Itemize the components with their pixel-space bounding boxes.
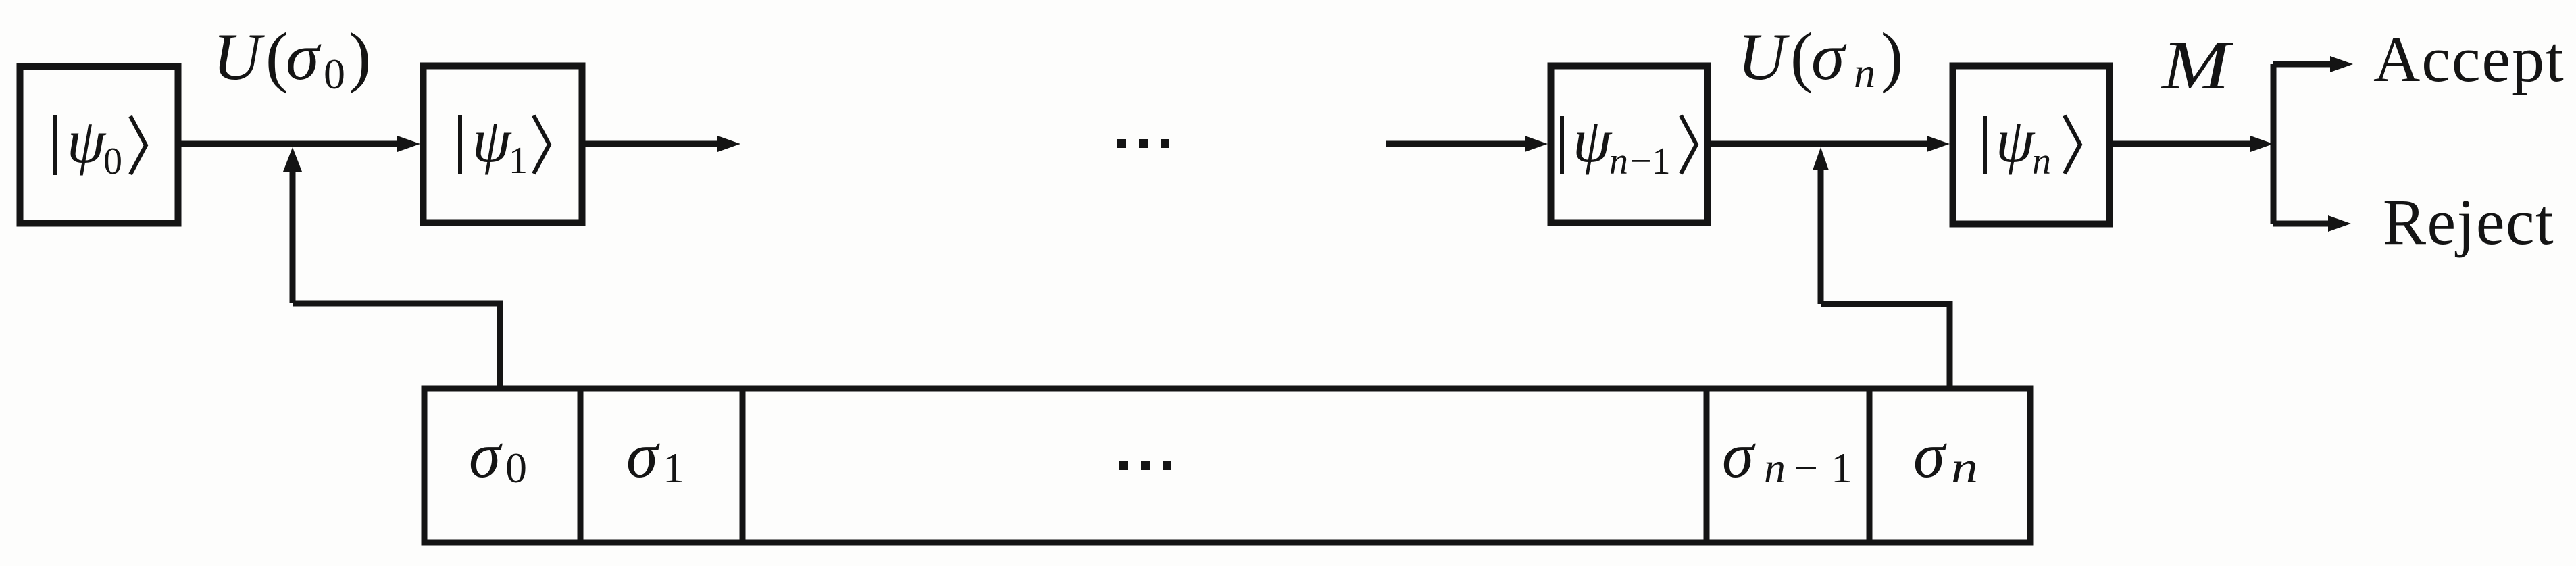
svg-text:(: ( bbox=[1790, 19, 1813, 94]
elbow connector 1 to tape bbox=[293, 303, 500, 386]
elbow connector 2 to tape bbox=[1821, 304, 1950, 386]
svg-text:): ) bbox=[1881, 19, 1903, 94]
svg-text:ψ: ψ bbox=[472, 106, 512, 175]
svg-text:σ: σ bbox=[626, 419, 660, 491]
svg-text:−1: −1 bbox=[1630, 140, 1671, 182]
svg-text:Accept: Accept bbox=[2373, 23, 2565, 95]
svg-text:ψ: ψ bbox=[1996, 106, 2036, 175]
tape feed arrow 2 (up arrow into wire) bbox=[1813, 147, 1829, 304]
svg-text:n: n bbox=[1951, 443, 1978, 492]
tape label sigma0 bbox=[469, 419, 527, 492]
svg-text:ψ: ψ bbox=[1573, 106, 1613, 175]
svg-text:σ: σ bbox=[1722, 419, 1756, 491]
tape (input word) bbox=[424, 388, 2030, 542]
wire out of box2 bbox=[585, 136, 740, 152]
tape label sigma n bbox=[1913, 419, 1978, 492]
svg-text:ψ: ψ bbox=[67, 107, 107, 176]
svg-text:Reject: Reject bbox=[2383, 186, 2554, 258]
svg-text:M: M bbox=[2161, 27, 2233, 104]
label Reject bbox=[2383, 186, 2554, 258]
svg-text:0: 0 bbox=[505, 444, 527, 492]
tape label sigma1 bbox=[626, 419, 684, 492]
svg-text:σ: σ bbox=[286, 19, 322, 94]
svg-text:n: n bbox=[1609, 140, 1628, 182]
label |psi1> bbox=[460, 106, 549, 182]
tape cell divider sigma n-1|sigma n bbox=[1867, 386, 1873, 545]
state box psi n-1 bbox=[1551, 66, 1708, 223]
tape label sigma n-1 bbox=[1722, 419, 1852, 492]
label |psi0> bbox=[55, 107, 146, 182]
ellipsis dots (tape) bbox=[1119, 461, 1171, 470]
label |psi n> bbox=[1985, 106, 2080, 182]
svg-text:0: 0 bbox=[103, 140, 122, 182]
svg-text:1: 1 bbox=[509, 140, 528, 182]
tape feed arrow 1 (up arrow into wire) bbox=[283, 147, 302, 303]
tape cell divider sigma1|dots bbox=[740, 386, 746, 545]
svg-text:): ) bbox=[349, 19, 371, 94]
svg-text:σ: σ bbox=[469, 419, 503, 491]
label U(sigma0) bbox=[213, 19, 371, 98]
label M bbox=[2161, 27, 2233, 104]
svg-text:n: n bbox=[2032, 140, 2051, 182]
tape cell divider dots|sigma n-1 bbox=[1704, 386, 1710, 545]
svg-text:1: 1 bbox=[1831, 444, 1852, 492]
state box psi0 bbox=[20, 67, 178, 224]
svg-text:σ: σ bbox=[1811, 19, 1847, 94]
svg-text:n: n bbox=[1764, 444, 1786, 492]
svg-text:U: U bbox=[213, 20, 265, 94]
branch bracket bbox=[2273, 56, 2353, 232]
measurement wire M bbox=[2113, 136, 2273, 152]
wire box1 to box2 bbox=[178, 136, 420, 152]
svg-text:1: 1 bbox=[663, 444, 684, 492]
svg-text:σ: σ bbox=[1913, 419, 1947, 491]
tape cell divider sigma0|sigma1 bbox=[578, 386, 584, 545]
svg-text:(: ( bbox=[266, 19, 288, 94]
label Accept bbox=[2373, 23, 2565, 95]
state box psi n bbox=[1953, 66, 2110, 224]
wire box3 to box4 bbox=[1711, 136, 1950, 152]
wire into box3 bbox=[1386, 136, 1548, 152]
state box psi1 bbox=[424, 66, 582, 223]
svg-text:−: − bbox=[1794, 444, 1818, 492]
svg-text:n: n bbox=[1854, 49, 1875, 97]
label U(sigma n) bbox=[1738, 19, 1903, 97]
svg-text:0: 0 bbox=[324, 50, 345, 98]
label |psi n-1> bbox=[1562, 106, 1696, 182]
ellipsis dots (top row) bbox=[1117, 139, 1169, 148]
svg-text:U: U bbox=[1738, 20, 1790, 94]
